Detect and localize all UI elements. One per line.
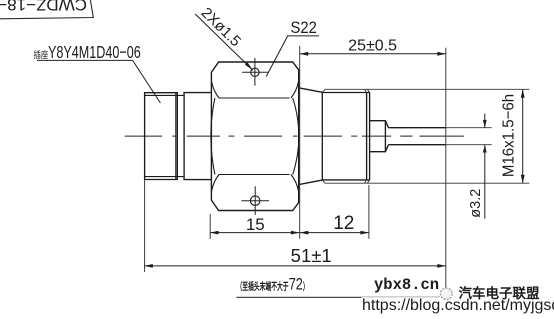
svg-text:）: ） <box>303 280 309 292</box>
S22 label <box>291 19 317 37</box>
dimension M16x1.5-6h line <box>522 89 524 183</box>
watermark logo circle <box>441 288 453 300</box>
2X dia1.5 label rotated along leader <box>198 4 244 50</box>
svg-text:CWDZ−18−0: CWDZ−18−0 <box>0 0 87 14</box>
long extension line at hex right / thread start (x=300.2) <box>299 46 301 239</box>
svg-text:S22: S22 <box>291 19 317 37</box>
svg-text:汽车电子联盟: 汽车电子联盟 <box>459 285 540 301</box>
svg-text:25±0.5: 25±0.5 <box>348 37 397 54</box>
label 插座Y8Y4M1D40-06 <box>34 49 49 60</box>
extension line below hex left edge <box>209 214 211 239</box>
bottom hole crosshair <box>241 186 269 215</box>
long extension line at pin end (x=445.8) <box>445 48 447 296</box>
top hole circle <box>251 68 259 76</box>
collar behind pin <box>370 121 389 152</box>
svg-text:ybx8.cn: ybx8.cn <box>374 276 439 294</box>
dia3.2 text (rotated) <box>468 189 484 218</box>
svg-text:15: 15 <box>246 215 265 234</box>
pin extension lines for dia3.2 <box>446 128 492 145</box>
label underline <box>37 59 133 61</box>
thread crest thin lines + chamfer slants + M16 extension lines <box>322 89 529 183</box>
left connector section 2 <box>184 93 211 180</box>
dimension dia3.2 lines and arrows <box>484 114 486 219</box>
label leader line <box>133 60 161 103</box>
pin (dia 3.2) <box>389 128 446 145</box>
centerline (dash-dot) <box>125 135 464 137</box>
bottom hole circle <box>250 196 260 206</box>
svg-text:2Xø1.5: 2Xø1.5 <box>198 4 244 50</box>
note underline (dark part) <box>236 296 361 298</box>
top hole crosshair <box>242 58 268 86</box>
hex body outline <box>211 62 298 211</box>
M16x1.5-6h text (rotated) <box>500 94 518 177</box>
extension line at left end (x=144.6) down to 51 dim <box>144 180 146 273</box>
2X dia1.5 leader line <box>195 14 253 70</box>
title text CWDZ-18-06 rotated 180deg, clipped at top <box>0 0 87 14</box>
2X dia1.5 leader arrowhead <box>245 62 253 70</box>
svg-text:ø3.2: ø3.2 <box>468 189 484 218</box>
svg-text:（至插头末端不大于: （至插头末端不大于 <box>237 280 289 292</box>
svg-text:12: 12 <box>333 213 354 234</box>
left connector section 1 (socket body) <box>145 93 178 180</box>
hex face boundary lines <box>219 98 290 175</box>
neck cone between hex and threaded cylinder <box>299 88 323 185</box>
svg-text:51±1: 51±1 <box>291 245 332 266</box>
threaded cylinder body <box>322 92 369 180</box>
svg-text:M16x1.5−6h: M16x1.5−6h <box>500 94 518 177</box>
S22 underline and leader <box>266 36 319 77</box>
svg-text:72: 72 <box>289 275 303 294</box>
groove small-diameter lines <box>145 95 185 176</box>
note (至插头末端不大于72) <box>237 280 289 292</box>
dimension 51±1 line <box>144 265 446 267</box>
extension line at cylinder right (x=368.9) <box>368 185 370 239</box>
svg-text:插座: 插座 <box>34 49 49 60</box>
left connector section1 inner end line <box>175 93 177 180</box>
dimension 15 / 12 line <box>210 232 369 234</box>
hex corner arcs <box>211 82 299 192</box>
title block box (top-left, partially cut) <box>0 0 93 19</box>
svg-text:Y8Y4M1D40−06: Y8Y4M1D40−06 <box>48 43 141 63</box>
dimension 25±0.5 line <box>300 53 446 55</box>
note underline (light continuation) <box>361 296 440 298</box>
